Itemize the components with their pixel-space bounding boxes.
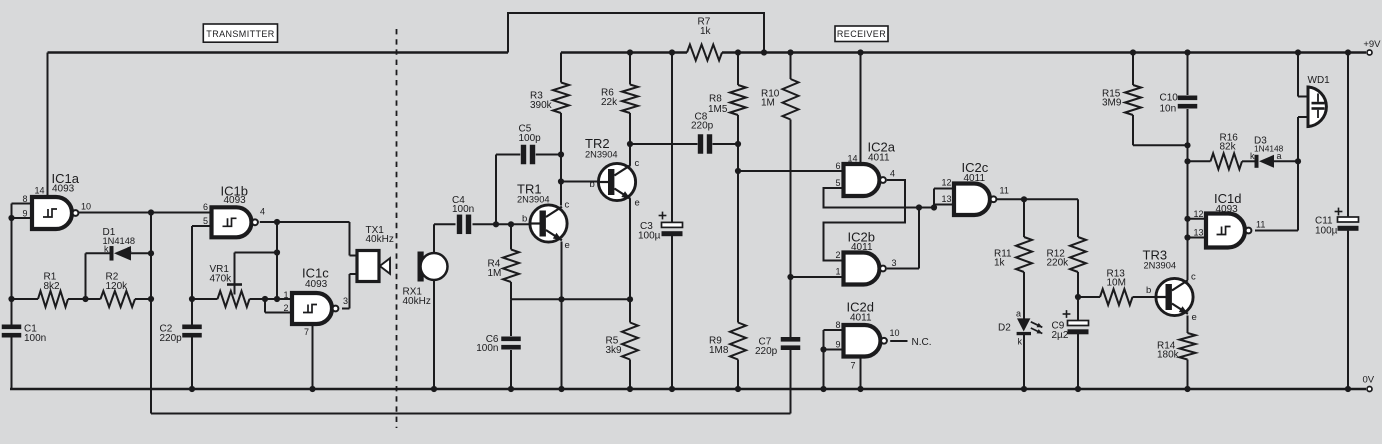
svg-text:100n: 100n xyxy=(452,204,474,215)
svg-text:e: e xyxy=(1192,312,1197,323)
svg-text:1M5: 1M5 xyxy=(708,104,728,115)
svg-text:3M9: 3M9 xyxy=(1102,98,1122,109)
svg-text:4011: 4011 xyxy=(868,153,890,164)
svg-text:5: 5 xyxy=(203,216,208,226)
svg-text:1: 1 xyxy=(835,267,840,277)
svg-text:8: 8 xyxy=(22,194,27,204)
svg-text:8: 8 xyxy=(835,320,840,330)
svg-text:12: 12 xyxy=(941,177,951,187)
svg-text:2: 2 xyxy=(283,303,288,313)
svg-text:1: 1 xyxy=(283,290,288,300)
svg-text:4093: 4093 xyxy=(305,279,328,290)
svg-text:3k9: 3k9 xyxy=(606,345,623,356)
svg-text:2N3904: 2N3904 xyxy=(585,149,618,159)
svg-text:13: 13 xyxy=(941,194,951,204)
svg-text:R8: R8 xyxy=(709,93,722,104)
svg-text:2N3904: 2N3904 xyxy=(1144,261,1177,271)
svg-text:k: k xyxy=(104,244,109,254)
svg-text:11: 11 xyxy=(1256,219,1265,229)
svg-text:2: 2 xyxy=(835,250,840,260)
svg-text:b: b xyxy=(1146,285,1151,296)
svg-text:4: 4 xyxy=(890,168,895,178)
svg-text:RECEIVER: RECEIVER xyxy=(837,29,886,39)
svg-text:7: 7 xyxy=(851,360,856,370)
svg-text:6: 6 xyxy=(203,202,208,212)
svg-text:180k: 180k xyxy=(1157,350,1180,361)
svg-text:10: 10 xyxy=(890,328,900,338)
svg-text:11: 11 xyxy=(1000,185,1009,195)
svg-text:0V: 0V xyxy=(1363,375,1375,386)
svg-text:+9V: +9V xyxy=(1363,39,1381,50)
svg-text:100p: 100p xyxy=(519,133,542,144)
svg-text:14: 14 xyxy=(847,154,857,164)
svg-text:10M: 10M xyxy=(1107,278,1126,289)
svg-text:40kHz: 40kHz xyxy=(403,296,431,307)
svg-text:a: a xyxy=(1016,308,1021,318)
svg-text:4: 4 xyxy=(260,206,265,216)
svg-text:4011: 4011 xyxy=(850,312,872,323)
svg-text:8k2: 8k2 xyxy=(44,281,61,292)
svg-text:3: 3 xyxy=(892,258,897,268)
svg-text:k: k xyxy=(1018,337,1023,347)
svg-text:390k: 390k xyxy=(530,100,553,111)
svg-text:e: e xyxy=(565,240,570,251)
svg-text:c: c xyxy=(565,199,570,210)
svg-text:D2: D2 xyxy=(998,322,1011,333)
svg-text:TRANSMITTER: TRANSMITTER xyxy=(206,29,274,39)
svg-text:10: 10 xyxy=(81,201,91,211)
svg-text:220p: 220p xyxy=(755,346,778,357)
svg-text:5: 5 xyxy=(835,178,840,188)
svg-text:4011: 4011 xyxy=(851,242,873,253)
svg-text:220p: 220p xyxy=(691,121,714,132)
svg-text:c: c xyxy=(635,158,640,169)
svg-text:4093: 4093 xyxy=(224,195,247,206)
svg-text:WD1: WD1 xyxy=(1308,75,1331,86)
svg-text:e: e xyxy=(635,197,640,208)
svg-text:1M: 1M xyxy=(761,98,775,109)
svg-text:C10: C10 xyxy=(1160,92,1179,103)
svg-text:1k: 1k xyxy=(994,258,1006,269)
svg-text:120k: 120k xyxy=(106,281,129,292)
svg-text:7: 7 xyxy=(304,327,309,337)
svg-text:40kHz: 40kHz xyxy=(366,234,394,245)
svg-text:4093: 4093 xyxy=(52,183,75,194)
svg-text:c: c xyxy=(1191,271,1196,282)
svg-text:1k: 1k xyxy=(700,26,712,37)
svg-text:b: b xyxy=(522,213,527,224)
svg-text:b: b xyxy=(590,179,595,190)
svg-text:9: 9 xyxy=(22,208,27,218)
svg-text:10n: 10n xyxy=(1160,103,1177,114)
svg-text:a: a xyxy=(127,244,132,254)
svg-text:100µ: 100µ xyxy=(638,231,661,242)
svg-text:13: 13 xyxy=(1193,228,1203,238)
svg-text:100n: 100n xyxy=(24,333,46,344)
svg-text:12: 12 xyxy=(1193,209,1203,219)
svg-text:220p: 220p xyxy=(160,333,183,344)
svg-text:470k: 470k xyxy=(210,273,233,284)
svg-text:100µ: 100µ xyxy=(1315,225,1338,236)
svg-text:a: a xyxy=(1277,151,1282,161)
svg-text:220k: 220k xyxy=(1047,258,1070,269)
svg-text:14: 14 xyxy=(34,186,44,196)
svg-text:100n: 100n xyxy=(476,343,498,354)
svg-text:82k: 82k xyxy=(1220,142,1237,153)
svg-text:1M: 1M xyxy=(488,268,502,279)
svg-text:4093: 4093 xyxy=(1216,204,1239,215)
svg-text:2N3904: 2N3904 xyxy=(517,195,550,205)
svg-text:6: 6 xyxy=(835,161,840,171)
svg-text:4011: 4011 xyxy=(964,173,986,184)
svg-text:22k: 22k xyxy=(601,97,618,108)
svg-text:9: 9 xyxy=(835,339,840,349)
svg-text:2µ2: 2µ2 xyxy=(1052,330,1069,341)
svg-text:1M8: 1M8 xyxy=(709,345,729,356)
svg-text:N.C.: N.C. xyxy=(912,337,932,348)
svg-text:3: 3 xyxy=(343,296,348,306)
svg-text:k: k xyxy=(1250,151,1255,161)
